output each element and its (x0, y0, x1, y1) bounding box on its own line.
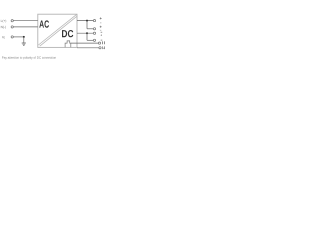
label L(+) (1, 20, 6, 23)
terminal circle A (93, 20, 95, 22)
wire PE (13, 36, 24, 38)
label - (terminal C) (101, 31, 103, 33)
wire L input (13, 20, 38, 22)
tick below label B (100, 29, 101, 31)
label PE (2, 37, 5, 39)
DC OK relay contact symbol (65, 41, 71, 47)
junction dot C (86, 32, 88, 34)
tick below label C (101, 34, 102, 36)
caption (2, 56, 56, 59)
terminal circle F (99, 47, 101, 49)
label + (terminal A) (100, 17, 102, 19)
label + (terminal B) (100, 26, 102, 28)
wire PE drop (23, 37, 25, 43)
AC/DC separator diagonal line 1 (38, 14, 76, 45)
power supply box U1 (AC/DC converter outline) (38, 14, 77, 47)
label N(-) (1, 26, 6, 29)
terminal circle D (93, 39, 95, 41)
label 14 (terminal F) (102, 46, 105, 49)
AC/DC separator diagonal line 2 (40, 16, 78, 46)
wire vertical A-B (86, 21, 88, 29)
terminal circle N (11, 26, 13, 28)
wire DC + output row A (77, 20, 93, 22)
junction dot PE (23, 36, 25, 38)
label - (terminal D) (101, 39, 103, 41)
ground symbol (22, 43, 26, 45)
label 13 (terminal E) (103, 41, 105, 44)
tick below label A (100, 22, 101, 24)
wire DC - output row C (77, 32, 93, 34)
wire DC OK contact row E (71, 42, 99, 44)
terminal circle L (11, 20, 13, 22)
wire vertical C-D (86, 33, 88, 40)
wire DC + output row B (87, 28, 93, 30)
wire DC OK contact row F (77, 47, 99, 49)
junction dot A (86, 20, 88, 22)
terminal circle C (93, 32, 95, 34)
label DC (62, 30, 73, 37)
wire DC - output row D (87, 39, 93, 41)
terminal circle E (98, 42, 100, 44)
wire N input (13, 26, 38, 28)
label AC (39, 20, 49, 27)
terminal circle PE (11, 36, 13, 38)
background (0, 0, 108, 75)
terminal circle B (93, 28, 95, 30)
